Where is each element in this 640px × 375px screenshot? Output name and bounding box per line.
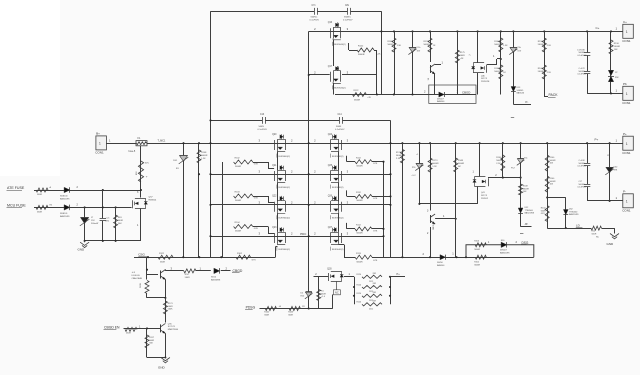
svg-text:56K507: 56K507	[500, 250, 508, 252]
svg-text:5600R: 5600R	[550, 160, 556, 162]
svg-text:CBGD EN: CBGD EN	[104, 325, 120, 329]
svg-text:R140: R140	[494, 41, 500, 43]
capacitor C14 0.1uF50V	[340, 119, 343, 121]
svg-text:560NC: 560NC	[579, 163, 586, 165]
svg-text:GTK: GTK	[541, 213, 546, 215]
wire Q5 source down	[140, 208, 142, 241]
svg-text:C+43K: C+43K	[579, 160, 586, 162]
svg-text:560R: 560R	[160, 262, 165, 264]
svg-text:1: 1	[99, 142, 101, 146]
wire P- stub	[513, 104, 531, 106]
svg-text:MCU FUSE: MCU FUSE	[7, 204, 26, 208]
resistor R107 bottom in bus	[475, 255, 486, 259]
svg-text:NC: NC	[335, 291, 339, 295]
svg-text:560R: 560R	[541, 210, 546, 212]
diode D13 BAS546	[511, 87, 516, 92]
svg-text:560R: 560R	[288, 315, 293, 317]
svg-text:CON1: CON1	[622, 151, 631, 155]
svg-text:560NC: 560NC	[344, 17, 351, 19]
wire Q4a source down	[477, 73, 479, 95]
svg-text:560R: 560R	[168, 306, 173, 308]
gate resistors right column	[355, 160, 372, 164]
diode D54 BAS21WS	[64, 205, 70, 210]
svg-text:56K50: 56K50	[437, 262, 444, 264]
resistor R150 2.1K	[544, 31, 546, 93]
wire cbud branch down	[146, 328, 148, 357]
svg-text:5600R: 5600R	[523, 188, 529, 190]
svg-text:R112: R112	[356, 157, 362, 159]
svg-text:Q21: Q21	[272, 165, 277, 167]
mosfet Q21 left column	[274, 171, 276, 181]
resistor R160 2.1K	[542, 65, 546, 79]
zener D31 39K	[609, 143, 611, 201]
ground GND2	[161, 358, 170, 361]
svg-text:5600R: 5600R	[235, 230, 242, 232]
tvs D30 bidirectional	[608, 70, 613, 75]
wire row3 right segment	[419, 203, 477, 205]
svg-text:560R: 560R	[321, 293, 326, 295]
svg-text:R160: R160	[538, 68, 544, 70]
svg-text:15V: 15V	[91, 220, 95, 222]
svg-text:0.1uF50V: 0.1uF50V	[335, 129, 345, 131]
wire P- stub 2	[521, 226, 532, 228]
NC box	[333, 290, 340, 295]
resistor R102 gate left	[234, 160, 253, 164]
mosfet Q27 right column	[341, 233, 343, 243]
svg-text:LD: LD	[576, 223, 580, 227]
svg-text:1.5K: 1.5K	[503, 45, 508, 47]
capacitor C21	[586, 184, 588, 187]
wire Q17 source to snubber bus	[333, 83, 335, 94]
wire main pack bus P+	[107, 143, 623, 145]
svg-text:5600R: 5600R	[235, 200, 242, 202]
capacitor C13 0.1uF50V	[262, 119, 265, 121]
svg-text:L8.08.G5: L8.08.G5	[132, 275, 141, 277]
svg-text:GND: GND	[78, 247, 86, 251]
wire ATE line	[34, 190, 141, 192]
junctions on left verticals	[209, 142, 211, 144]
diode D61 BAS546	[501, 242, 507, 247]
zener D10 5.1V	[412, 31, 414, 94]
svg-text:5600R: 5600R	[550, 181, 556, 183]
svg-text:560R: 560R	[264, 315, 269, 317]
svg-text:1.5K: 1.5K	[397, 45, 402, 47]
mosfet Q17	[330, 72, 332, 82]
svg-text:Q23: Q23	[272, 227, 277, 229]
wire left gate drop	[222, 162, 224, 257]
svg-text:BUK9640(2): BUK9640(2)	[279, 218, 291, 220]
svg-text:5600R: 5600R	[354, 100, 361, 102]
mosfet Q5	[135, 198, 146, 200]
mosfet Q20 left column	[274, 140, 276, 150]
svg-text:5600R: 5600R	[474, 249, 480, 251]
svg-text:Q24: Q24	[328, 134, 333, 136]
resistor R122 shunt .15R	[362, 294, 382, 297]
svg-text:56TC3: 56TC3	[481, 195, 488, 197]
wire snubber bus	[335, 94, 476, 96]
resistor R103 gate left	[234, 194, 253, 198]
svg-text:R108: R108	[201, 152, 207, 154]
wire MCU line	[34, 207, 132, 209]
svg-text:5600R: 5600R	[474, 264, 480, 266]
svg-text:R120: R120	[357, 293, 362, 295]
svg-text:0.1uF50V: 0.1uF50V	[578, 187, 587, 189]
svg-text:1.2K: 1.2K	[432, 166, 437, 168]
svg-text:CBA-CBHB: CBA-CBHB	[132, 277, 143, 280]
svg-text:R120: R120	[357, 302, 362, 304]
wire Q35 chain vertical	[165, 298, 167, 323]
resistor R120 shunt .15R	[362, 275, 382, 278]
svg-text:5600R: 5600R	[494, 71, 501, 73]
svg-text:.15R: .15R	[372, 301, 377, 303]
svg-text:R102: R102	[237, 253, 243, 255]
svg-text:SOT-23: SOT-23	[168, 326, 176, 328]
svg-text:CON1: CON1	[622, 101, 631, 105]
wire Q16-Q17 drain chain	[333, 40, 335, 66]
wire top bus C+	[309, 31, 623, 33]
svg-text:GTK: GTK	[373, 198, 378, 200]
svg-text:R120: R120	[357, 274, 362, 276]
svg-text:0.1uF50V: 0.1uF50V	[578, 166, 587, 168]
svg-text:1: 1	[626, 30, 628, 34]
wire top loop horizontal	[211, 11, 382, 13]
svg-text:R169: R169	[388, 41, 394, 43]
resistor R109 10K	[519, 184, 523, 195]
svg-text:GTK: GTK	[252, 259, 257, 261]
zener D16	[419, 143, 421, 204]
wire Q30 drain to shunt	[344, 276, 354, 278]
svg-text:560NC: 560NC	[311, 17, 318, 19]
svg-text:Q16: Q16	[328, 22, 333, 24]
wire pdsg	[260, 308, 309, 310]
svg-text:R190: R190	[614, 43, 620, 45]
wire to CON1 pin4	[587, 200, 623, 202]
wire gnd rail	[85, 240, 141, 242]
svg-text:5600R: 5600R	[494, 44, 501, 46]
svg-text:DSG: DSG	[522, 241, 529, 245]
svg-text:C+: C+	[623, 20, 627, 24]
junctions csg bus right	[401, 256, 403, 258]
svg-text:C13: C13	[260, 114, 265, 116]
svg-text:Q17: Q17	[328, 66, 333, 68]
svg-text:C+: C+	[596, 26, 600, 30]
resistor R190 10K	[610, 31, 612, 93]
svg-text:5600R: 5600R	[356, 166, 363, 168]
svg-text:0.1uF50V: 0.1uF50V	[258, 129, 268, 131]
svg-text:R175: R175	[460, 52, 466, 54]
resistor R173b	[430, 143, 432, 210]
wire Q14 collector to node	[435, 218, 456, 220]
wire Q4a drain drop	[477, 31, 479, 63]
svg-text:R100: R100	[496, 157, 502, 159]
svg-text:GTK: GTK	[373, 260, 378, 262]
resistor R148	[455, 143, 457, 257]
svg-text:5600R: 5600R	[424, 44, 431, 46]
wire Q17 drain	[309, 74, 330, 76]
svg-text:560R: 560R	[118, 220, 123, 222]
svg-text:+2K: +2K	[367, 97, 371, 99]
ground GND1	[84, 241, 86, 242]
svg-text:BUK9640(2): BUK9640(2)	[332, 249, 344, 251]
wire fuse down to Q5	[140, 146, 142, 198]
svg-text:CON1: CON1	[622, 39, 631, 43]
svg-text:560R: 560R	[460, 55, 465, 57]
wire dsg loop	[466, 245, 534, 257]
svg-text:GTK: GTK	[373, 230, 378, 232]
svg-text:BUK9640(2): BUK9640(2)	[332, 187, 344, 189]
mosfet Q16	[330, 28, 332, 38]
svg-text:1: 1	[626, 92, 628, 96]
svg-text:.15R: .15R	[372, 273, 377, 275]
svg-text:1.5K: 1.5K	[201, 158, 206, 160]
zener D11	[520, 143, 522, 227]
transistor Q13 NPN	[430, 65, 432, 73]
svg-text:2N7002: 2N7002	[481, 198, 489, 200]
wire gate rail A	[383, 162, 385, 258]
svg-text:56TC3: 56TC3	[481, 78, 488, 80]
svg-text:JP-: JP-	[525, 223, 529, 226]
svg-text:R103: R103	[235, 192, 241, 194]
svg-text:PACK: PACK	[549, 93, 559, 97]
capacitor C7 0.1uF50V	[314, 10, 317, 12]
diode D15 BAS546	[440, 255, 445, 260]
wire B+ to fuse	[106, 143, 136, 145]
mosfet Q24 right column	[341, 140, 343, 150]
wire Q4b source to row3	[477, 187, 479, 204]
wire gate supply horizontal	[211, 120, 391, 122]
svg-text:0.1uF50V: 0.1uF50V	[578, 74, 587, 76]
wire mosfet row2 bus	[211, 174, 391, 176]
svg-text:R122: R122	[159, 253, 165, 255]
resistor R100 2.1K	[502, 143, 504, 177]
svg-text:560N: 560N	[259, 126, 265, 128]
svg-text:NC: NC	[458, 166, 462, 168]
svg-text:GTK: GTK	[254, 228, 259, 230]
wire Q17 right to rail	[342, 74, 377, 76]
ground GND3	[610, 234, 619, 237]
svg-text:B+: B+	[96, 132, 100, 136]
svg-text:BUK9640(2): BUK9640(2)	[334, 44, 346, 46]
resistor R52 560R	[36, 205, 48, 209]
svg-text:R148: R148	[458, 160, 464, 162]
resistor R153 GTK	[545, 206, 549, 222]
wire drain chain segments	[277, 152, 279, 171]
svg-text:+: +	[146, 175, 148, 179]
connector CON1 B+ input	[96, 136, 107, 150]
svg-text:BUK9640(2): BUK9640(2)	[332, 156, 344, 158]
svg-text:2.1K: 2.1K	[547, 45, 552, 47]
svg-text:Q30: Q30	[327, 268, 332, 271]
wire csg down	[146, 257, 148, 279]
svg-text:5600R: 5600R	[201, 155, 208, 157]
svg-text:PDSG: PDSG	[246, 305, 256, 309]
wire Q4a gate to divider	[487, 64, 497, 66]
zener J7 15V	[84, 206, 86, 208]
resistor R121 560K	[163, 301, 167, 314]
svg-text:2.1K: 2.1K	[547, 72, 552, 74]
svg-text:GND: GND	[607, 242, 615, 246]
mosfet Q26 right column	[341, 202, 343, 212]
svg-text:500mW: 500mW	[91, 223, 98, 225]
svg-text:R150: R150	[538, 41, 544, 43]
svg-text:C+47K: C+47K	[579, 68, 586, 70]
shunt resistor bank rails	[354, 277, 356, 305]
svg-text:56K: 56K	[118, 223, 122, 225]
svg-text:560R: 560R	[37, 211, 42, 213]
svg-text:560N: 560N	[336, 126, 342, 128]
svg-text:ATE FUSE: ATE FUSE	[7, 186, 25, 190]
wire emitter down to gnd	[165, 333, 167, 357]
mosfet Q23 left column	[274, 233, 276, 243]
svg-text:15V: 15V	[417, 51, 421, 53]
resistor R144 parallel	[318, 277, 320, 309]
resistor R61 56K	[115, 206, 117, 208]
svg-text:Q25: Q25	[328, 165, 333, 167]
svg-text:Q27: Q27	[328, 227, 333, 229]
diode D53 BAS21WS	[64, 187, 70, 192]
diode D52 BAS21WS	[518, 208, 523, 213]
svg-text:GTK: GTK	[254, 197, 259, 199]
wire drain chain segments	[277, 183, 279, 202]
svg-text:560NC: 560NC	[579, 184, 586, 186]
resistor R50	[184, 269, 196, 273]
svg-text:P-: P-	[526, 100, 529, 104]
wire bottom gate bus CSG	[134, 257, 275, 259]
svg-text:5600R: 5600R	[356, 233, 363, 235]
capacitor C18 0.1uF50V	[586, 71, 588, 74]
zener D51	[180, 155, 188, 157]
resistor R123 shunt .15R	[362, 303, 382, 306]
svg-text:15V: 15V	[517, 51, 521, 53]
svg-text:560R: 560R	[140, 283, 142, 288]
junctions pack bus	[401, 142, 403, 144]
svg-text:R122: R122	[358, 46, 364, 48]
svg-text:BUK9640(2): BUK9640(2)	[279, 187, 291, 189]
svg-text:BAS546: BAS546	[437, 264, 445, 267]
svg-text:BAS21WS: BAS21WS	[500, 252, 510, 255]
resistor R106 top	[475, 243, 486, 247]
resistor R173 1K with transistor	[430, 31, 432, 62]
fuse F1	[136, 141, 147, 146]
svg-text:BAS546: BAS546	[437, 100, 445, 103]
svg-text:5600R: 5600R	[235, 166, 242, 168]
svg-text:2N7002E: 2N7002E	[481, 81, 490, 83]
wire vertical right of top loop	[381, 11, 383, 94]
wire branch to D62	[547, 197, 566, 199]
wire to CON1 pin row2	[587, 93, 623, 95]
svg-text:5600R: 5600R	[496, 160, 503, 162]
resistor R151 10K upper	[547, 143, 549, 228]
resistor R104 gate left	[234, 225, 253, 229]
resistor R154 NC	[591, 226, 602, 230]
resistor R105 row4 gate	[236, 255, 251, 259]
svg-text:BUK9640(2): BUK9640(2)	[279, 156, 291, 158]
svg-text:BAS21WS: BAS21WS	[569, 213, 579, 216]
svg-text:1: 1	[626, 199, 628, 203]
resistor R51 560R	[36, 188, 48, 192]
svg-text:R173: R173	[424, 41, 430, 43]
svg-text:Q26: Q26	[328, 196, 333, 198]
svg-text:CBGD: CBGD	[462, 90, 470, 94]
diode D50 BAT46WS	[214, 268, 220, 273]
svg-text:CON1: CON1	[622, 208, 631, 212]
mosfet Q4a 2N7002	[473, 62, 484, 64]
svg-text:5600R: 5600R	[458, 163, 465, 165]
svg-text:R104: R104	[235, 222, 241, 224]
svg-text:BUK9640(2): BUK9640(2)	[332, 218, 344, 220]
svg-text:560R: 560R	[37, 194, 42, 196]
resistor R122b	[353, 93, 367, 97]
wire pdsg to Q30 source	[309, 308, 333, 310]
svg-text:MMBT3904: MMBT3904	[168, 329, 179, 331]
mosfet Q22 left column	[274, 202, 276, 212]
wire mosfet row4 bus	[211, 236, 384, 238]
svg-text:C14: C14	[338, 114, 343, 116]
svg-text:BUK9640(2): BUK9640(2)	[279, 249, 291, 251]
junction gate rails	[389, 173, 391, 175]
resistor R121 shunt .15R	[362, 285, 382, 288]
svg-text:BAS21WS: BAS21WS	[60, 198, 70, 201]
svg-text:560NC: 560NC	[579, 71, 586, 73]
svg-text:560R: 560R	[126, 332, 131, 334]
svg-text:fuse-5: fuse-5	[129, 150, 136, 153]
resistor R120 in csg bus	[158, 255, 173, 259]
svg-text:P+: P+	[623, 132, 627, 136]
resistor R122 top gate	[357, 48, 374, 52]
svg-text:R141: R141	[494, 68, 500, 70]
zener D12 15V	[513, 31, 515, 104]
svg-text:Rb9004: Rb9004	[149, 199, 157, 201]
svg-text:5600R: 5600R	[396, 155, 403, 157]
wire drain chain segments	[277, 213, 279, 232]
capacitor C17 0.1uF50V	[587, 31, 589, 93]
svg-text:R112: R112	[356, 192, 362, 194]
svg-text:BAT46WS: BAT46WS	[211, 279, 221, 282]
wire gate rail B	[390, 120, 392, 257]
diode D14 inside box	[439, 92, 444, 97]
transistor Q35 MMBT3904	[160, 324, 162, 332]
svg-text:TTB0500: TTB0500	[569, 211, 578, 213]
svg-text:2.1K: 2.1K	[396, 158, 401, 160]
wire to gnd	[602, 228, 615, 230]
svg-text:2.1K: 2.1K	[496, 163, 501, 165]
svg-text:.15R: .15R	[372, 283, 377, 285]
svg-text:5600R: 5600R	[538, 44, 545, 46]
svg-text:BAS21WS: BAS21WS	[525, 212, 535, 215]
resistor R142	[265, 307, 276, 311]
snubber network box	[429, 85, 476, 103]
wire emitter loop	[145, 281, 149, 294]
svg-text:R112: R112	[356, 225, 362, 227]
diode D62 BAS21WS	[563, 210, 568, 215]
wire discharge sense bus	[384, 257, 534, 259]
node junctions top bus	[380, 30, 382, 32]
svg-text:Pb: Pb	[623, 82, 627, 86]
svg-text:2512: 2512	[369, 308, 373, 310]
wire left main vertical	[210, 11, 212, 257]
svg-text:GTK: GTK	[373, 163, 378, 165]
svg-text:5600R: 5600R	[388, 44, 395, 46]
svg-text:56K50?: 56K50?	[437, 98, 445, 100]
svg-text:P+: P+	[595, 138, 599, 142]
svg-text:5600R: 5600R	[432, 163, 439, 165]
mosfet Q25 right column	[341, 171, 343, 181]
svg-text:0.1uF50V: 0.1uF50V	[343, 20, 353, 22]
svg-text:566505: 566505	[517, 90, 525, 92]
svg-text:560NC: 560NC	[579, 52, 586, 54]
svg-text:+2K: +2K	[460, 58, 464, 60]
svg-text:R102: R102	[235, 158, 241, 160]
